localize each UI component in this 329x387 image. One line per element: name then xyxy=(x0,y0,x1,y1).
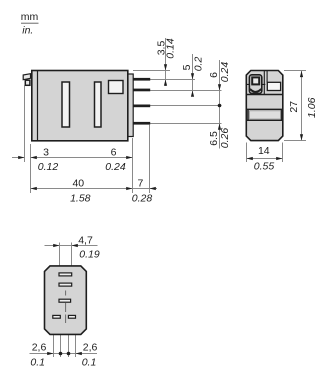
svg-text:6.5: 6.5 xyxy=(208,131,220,146)
svg-text:0.19: 0.19 xyxy=(79,249,100,261)
svg-text:0.26: 0.26 xyxy=(219,128,231,149)
svg-text:0.1: 0.1 xyxy=(82,356,97,368)
svg-text:1.06: 1.06 xyxy=(306,97,318,118)
svg-text:27: 27 xyxy=(288,101,300,113)
svg-text:0.14: 0.14 xyxy=(165,38,177,59)
svg-text:5: 5 xyxy=(181,64,193,70)
svg-text:7: 7 xyxy=(137,178,143,190)
svg-text:40: 40 xyxy=(72,178,84,190)
svg-text:4,7: 4,7 xyxy=(78,235,93,247)
svg-text:0.2: 0.2 xyxy=(192,57,204,72)
svg-text:2,6: 2,6 xyxy=(32,342,47,354)
svg-text:14: 14 xyxy=(258,145,270,157)
svg-text:0.24: 0.24 xyxy=(105,161,126,173)
svg-text:1.58: 1.58 xyxy=(70,193,91,205)
svg-text:0.1: 0.1 xyxy=(30,357,45,369)
svg-text:2,6: 2,6 xyxy=(83,342,98,354)
svg-text:0.28: 0.28 xyxy=(132,193,153,205)
svg-text:0.24: 0.24 xyxy=(219,62,231,83)
svg-text:6: 6 xyxy=(111,147,117,159)
svg-text:6: 6 xyxy=(208,72,220,78)
svg-text:3: 3 xyxy=(43,147,49,159)
svg-text:0.55: 0.55 xyxy=(254,161,275,173)
svg-text:0.12: 0.12 xyxy=(38,161,59,173)
svg-text:in.: in. xyxy=(22,25,33,37)
svg-text:mm: mm xyxy=(21,11,39,23)
